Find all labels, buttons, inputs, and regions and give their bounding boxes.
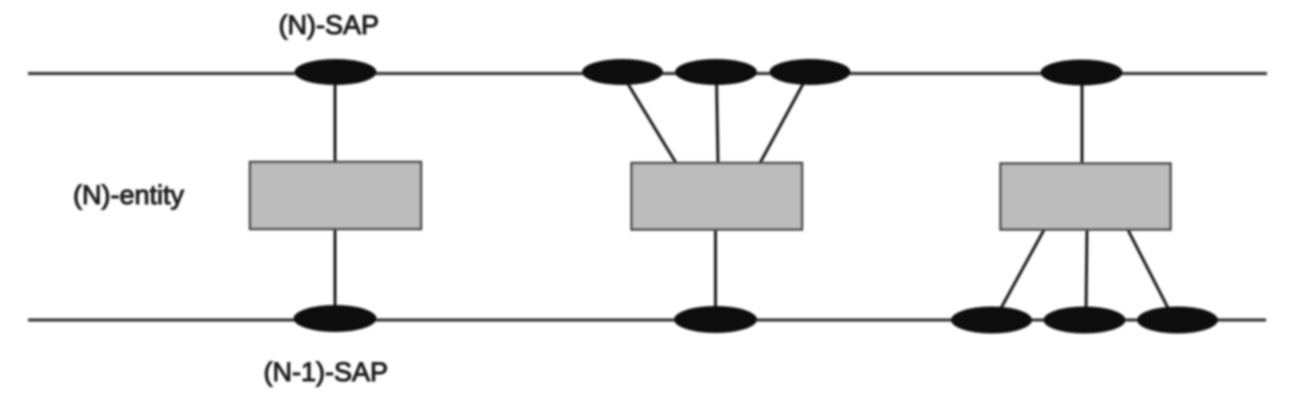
wire: (N-1)-service boundary bottom horizontal line [28, 318, 1266, 321]
wire: middle group right diagonal from SAP to entity box [760, 84, 803, 163]
node: SAP ellipse, right group bottom right [1137, 307, 1218, 334]
wire: right group center vertical from entity box to bottom SAP [1086, 228, 1087, 312]
node: SAP ellipse, right group bottom center [1044, 307, 1126, 334]
wire: right group right diagonal from entity box to bottom SAP [1127, 228, 1169, 310]
node: SAP ellipse, middle group top right [770, 59, 851, 85]
wire: middle group left diagonal from SAP to entity box [628, 84, 676, 163]
svg-text:(N-1)-SAP: (N-1)-SAP [264, 357, 389, 387]
node: SAP ellipse, middle group bottom [674, 306, 757, 333]
wire: (N)-service boundary top horizontal line [28, 72, 1267, 75]
wire: right group left diagonal from entity box to bottom SAP [1000, 228, 1045, 310]
node: SAP ellipse, middle group top left [582, 59, 663, 85]
node: SAP ellipse, right group bottom left [951, 307, 1032, 334]
wire: left group vertical line from top SAP to entity box [334, 74, 337, 163]
svg-text:(N)-SAP: (N)-SAP [279, 10, 380, 40]
(N)-entity box, left [250, 162, 421, 229]
wire: middle group vertical from entity box to bottom SAP [714, 228, 717, 315]
node: SAP ellipse, right group top [1041, 60, 1123, 86]
node: (N-1)-SAP ellipse, left group bottom [294, 305, 377, 332]
(N)-entity box, right [1001, 164, 1171, 230]
wire: left group vertical line from entity box to bottom SAP [334, 228, 337, 318]
wire: right group vertical from top SAP to entity box [1081, 74, 1084, 164]
svg-text:(N)-entity: (N)-entity [73, 180, 185, 210]
(N)-entity box, middle [632, 163, 803, 230]
node: (N)-SAP ellipse, left group top [295, 59, 377, 85]
wire: middle group center vertical from SAP to entity box [717, 80, 719, 163]
node: SAP ellipse, middle group top center [675, 59, 757, 85]
